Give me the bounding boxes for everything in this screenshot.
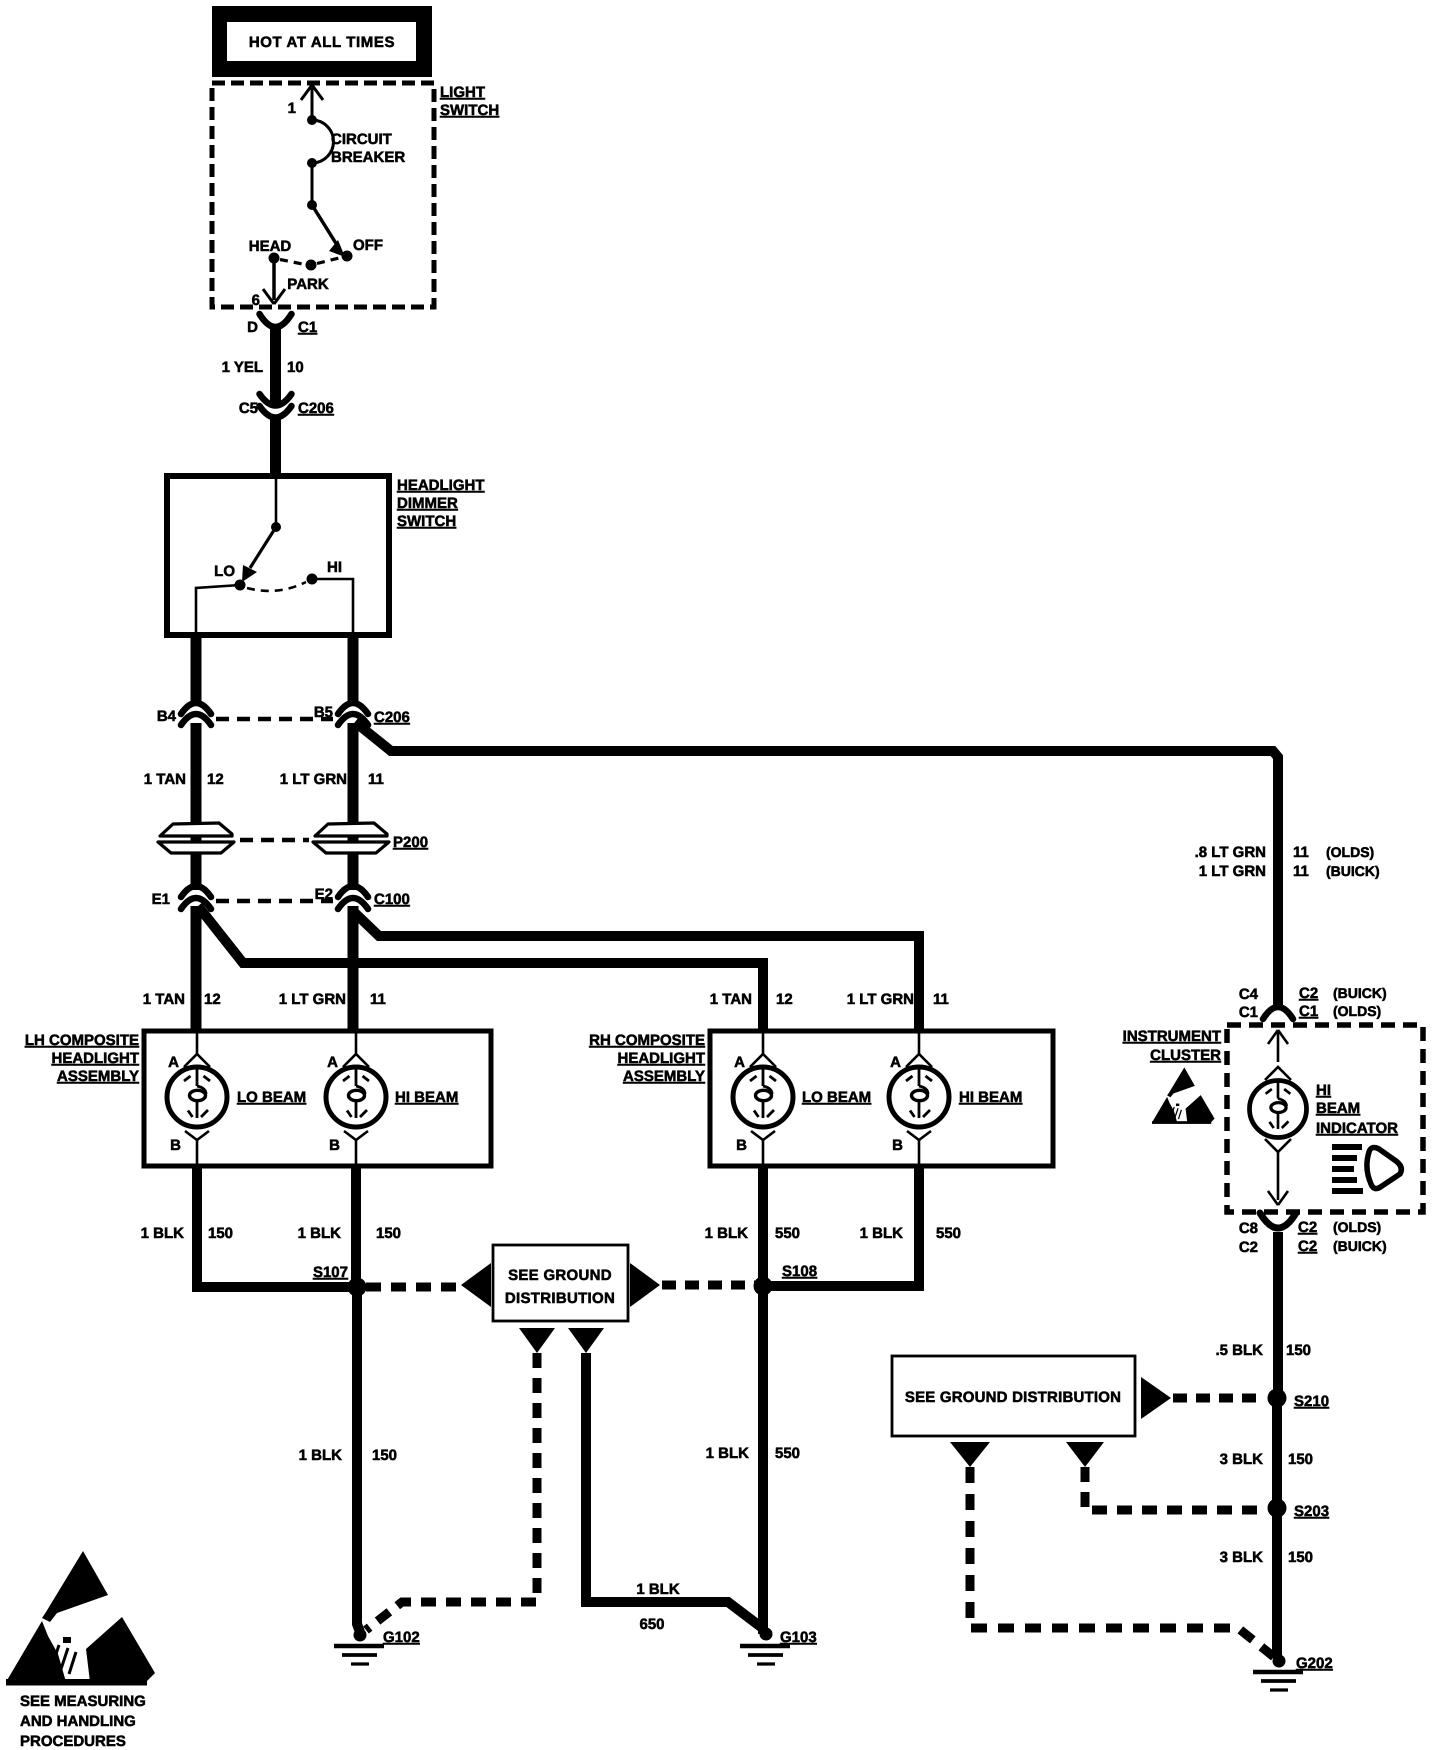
- svg-text:OFF: OFF: [353, 237, 383, 254]
- wire 3 BLK 150 (S210-S203): [1220, 1398, 1313, 1508]
- svg-text:SWITCH: SWITCH: [440, 102, 499, 119]
- svg-text:1 BLK: 1 BLK: [860, 1225, 904, 1242]
- HOT AT ALL TIMES power box: [212, 6, 432, 77]
- svg-text:E1: E1: [152, 891, 170, 908]
- svg-text:HI BEAM: HI BEAM: [395, 1089, 458, 1106]
- connector C206 pin B4: [157, 703, 211, 725]
- splice S107 dot: [348, 1278, 367, 1297]
- ESD warning symbol bottom left: [6, 1551, 155, 1686]
- svg-text:A: A: [327, 1054, 338, 1071]
- grommet P200 right: [313, 823, 428, 853]
- connector C8/C2 at cluster bottom: [1239, 1213, 1387, 1256]
- svg-text:150: 150: [1286, 1342, 1311, 1359]
- svg-text:.5 BLK: .5 BLK: [1215, 1342, 1263, 1359]
- svg-text:150: 150: [208, 1225, 233, 1242]
- svg-text:HEADLIGHT: HEADLIGHT: [52, 1050, 140, 1067]
- svg-text:SEE MEASURING: SEE MEASURING: [20, 1693, 146, 1710]
- pin 1 arrow up: [288, 85, 323, 120]
- pin 6 arrow down: [252, 263, 285, 309]
- svg-text:C206: C206: [298, 400, 334, 417]
- svg-text:150: 150: [376, 1225, 401, 1242]
- connector C206 pin B5: [314, 703, 410, 726]
- svg-text:A: A: [734, 1054, 745, 1071]
- LH lo beam lamp: [167, 1033, 306, 1164]
- wire 1 YEL 10: [222, 328, 304, 404]
- svg-text:1 BLK: 1 BLK: [299, 1447, 343, 1464]
- svg-text:INSTRUMENT: INSTRUMENT: [1123, 1028, 1221, 1045]
- dashed line B4-B5: [216, 717, 333, 721]
- svg-text:LIGHT: LIGHT: [440, 84, 485, 101]
- svg-text:C1: C1: [1239, 1004, 1258, 1021]
- svg-text:1 BLK: 1 BLK: [636, 1581, 680, 1598]
- ground G202: [1253, 1655, 1333, 1691]
- svg-text:CIRCUIT: CIRCUIT: [331, 131, 392, 148]
- svg-text:650: 650: [639, 1616, 664, 1633]
- svg-text:1 BLK: 1 BLK: [705, 1225, 749, 1242]
- svg-text:ASSEMBLY: ASSEMBLY: [623, 1068, 705, 1085]
- arrow down-left under box: [519, 1328, 555, 1353]
- svg-text:(BUICK): (BUICK): [1333, 1238, 1387, 1254]
- ESD symbol small: [1152, 1067, 1215, 1123]
- headlight beam icon: [1332, 1144, 1401, 1194]
- svg-text:B: B: [170, 1137, 181, 1154]
- svg-text:HEADLIGHT: HEADLIGHT: [618, 1050, 706, 1067]
- svg-text:.8 LT GRN: .8 LT GRN: [1195, 844, 1266, 861]
- ground G103: [740, 1628, 817, 1665]
- instrument cluster label: [1123, 1028, 1221, 1064]
- ESD note text: [20, 1693, 146, 1750]
- RH assembly label: [589, 1032, 705, 1085]
- connector C100 pin E2: [315, 886, 410, 909]
- arrow right of box: [1141, 1377, 1171, 1419]
- see ground distribution box (left): [493, 1245, 628, 1321]
- OFF contact: [342, 237, 384, 262]
- headlight dimmer switch label: [397, 477, 485, 530]
- splice S108: [782, 1263, 817, 1280]
- svg-text:3 BLK: 3 BLK: [1220, 1549, 1264, 1566]
- svg-text:1 LT GRN: 1 LT GRN: [279, 991, 346, 1008]
- grommet P200 left: [158, 823, 234, 853]
- svg-text:C1: C1: [1299, 1003, 1318, 1020]
- wire 1 TAN 12 (left, upper): [144, 723, 224, 890]
- dimmer switch internals: [196, 479, 353, 633]
- PARK contact: [287, 260, 329, 294]
- svg-text:10: 10: [287, 359, 304, 376]
- svg-text:1 LT GRN: 1 LT GRN: [847, 991, 914, 1008]
- wire branch B5 to instrument cluster: [355, 722, 1278, 1006]
- svg-text:150: 150: [372, 1447, 397, 1464]
- svg-text:G102: G102: [383, 1629, 420, 1646]
- switch blade to OFF: [307, 200, 345, 257]
- wire RH lo beam ground 1 BLK 550: [705, 1164, 800, 1634]
- wire RH hi beam ground 1 BLK 550: [763, 1164, 961, 1286]
- RH composite headlight assembly box: [710, 1031, 1053, 1166]
- LH composite headlight assembly box: [144, 1031, 491, 1166]
- connector C1 pin D: [247, 314, 317, 336]
- wire LH hi beam ground 1 BLK 150: [298, 1164, 401, 1287]
- wire labels row 2 left: [143, 991, 386, 1008]
- svg-text:PROCEDURES: PROCEDURES: [20, 1733, 126, 1750]
- svg-text:P200: P200: [393, 834, 428, 851]
- svg-text:150: 150: [1288, 1549, 1313, 1566]
- svg-text:HI: HI: [1316, 1082, 1331, 1099]
- svg-text:A: A: [890, 1054, 901, 1071]
- connector C100 pin E1: [152, 886, 211, 909]
- svg-text:1 BLK: 1 BLK: [141, 1225, 185, 1242]
- wire 1 LT GRN 11 (B5 down, upper): [280, 723, 384, 890]
- splice S210 dot: [1268, 1389, 1287, 1408]
- svg-text:550: 550: [775, 1225, 800, 1242]
- svg-text:1 BLK: 1 BLK: [706, 1445, 750, 1462]
- wire E1 down to LH lo beam: [191, 906, 202, 1033]
- svg-text:(BUICK): (BUICK): [1326, 863, 1380, 879]
- svg-text:HI: HI: [327, 559, 342, 576]
- LH assembly label: [25, 1032, 139, 1085]
- instrument cluster dashed box: [1227, 1025, 1423, 1212]
- circuit breaker: [307, 115, 405, 168]
- svg-text:12: 12: [776, 991, 793, 1008]
- svg-text:C8: C8: [1239, 1220, 1258, 1237]
- svg-text:C2: C2: [1239, 1239, 1258, 1256]
- wire .5 BLK 150: [1215, 1232, 1311, 1398]
- svg-text:C1: C1: [298, 319, 317, 336]
- svg-text:1 BLK: 1 BLK: [298, 1225, 342, 1242]
- svg-text:3 BLK: 3 BLK: [1220, 1451, 1264, 1468]
- svg-text:SWITCH: SWITCH: [397, 513, 456, 530]
- dashed line P200: [240, 838, 309, 842]
- ground G102: [334, 1629, 420, 1665]
- svg-text:150: 150: [1288, 1451, 1313, 1468]
- arrow down-right under box: [568, 1328, 604, 1353]
- svg-text:1 TAN: 1 TAN: [143, 991, 185, 1008]
- svg-text:C100: C100: [374, 891, 410, 908]
- arrows under box: [950, 1442, 990, 1467]
- svg-text:C2: C2: [1298, 1238, 1317, 1255]
- hi beam indicator lamp: [1250, 1030, 1399, 1205]
- svg-text:11: 11: [368, 771, 384, 788]
- wire: [311, 163, 314, 205]
- svg-text:D: D: [247, 319, 258, 336]
- svg-text:CLUSTER: CLUSTER: [1150, 1047, 1221, 1064]
- svg-text:C2: C2: [1299, 985, 1318, 1002]
- wire B4 out of dimmer: [191, 632, 202, 702]
- RH lo beam lamp: [733, 1033, 871, 1164]
- svg-text:HEAD: HEAD: [249, 238, 292, 255]
- light switch dashed box: [212, 83, 434, 307]
- svg-text:RH COMPOSITE: RH COMPOSITE: [589, 1032, 705, 1049]
- svg-text:1 TAN: 1 TAN: [144, 771, 186, 788]
- svg-text:SEE GROUND: SEE GROUND: [508, 1267, 612, 1284]
- svg-text:(OLDS): (OLDS): [1326, 844, 1374, 860]
- wire B5 out of dimmer: [348, 632, 359, 702]
- splice S107: [313, 1264, 348, 1281]
- connector C4/C1 at cluster top: [1239, 985, 1387, 1021]
- svg-text:G103: G103: [780, 1629, 817, 1646]
- wire E2 down to LH hi beam: [348, 906, 359, 1033]
- wire labels row 2 right: [710, 991, 949, 1008]
- svg-text:C2: C2: [1298, 1219, 1317, 1236]
- connector C206 pin C5: [239, 394, 334, 418]
- svg-text:B: B: [329, 1137, 340, 1154]
- svg-text:11: 11: [1293, 844, 1309, 861]
- splice S210: [1294, 1393, 1329, 1410]
- dashed ground wire to G202: [970, 1467, 1274, 1657]
- splice S108 dot: [754, 1277, 773, 1296]
- svg-text:LO BEAM: LO BEAM: [237, 1089, 306, 1106]
- light switch label: [440, 84, 499, 119]
- wire below S107 1 BLK 150: [299, 1287, 397, 1632]
- svg-text:PARK: PARK: [287, 276, 329, 293]
- LH hi beam lamp: [326, 1033, 458, 1164]
- headlight dimmer switch box: [167, 476, 389, 635]
- dashed blade positions: [280, 258, 341, 265]
- svg-text:12: 12: [207, 771, 224, 788]
- HEAD contact: [249, 238, 292, 264]
- svg-text:550: 550: [775, 1445, 800, 1462]
- svg-text:(OLDS): (OLDS): [1333, 1003, 1381, 1019]
- dashed wire to S108: [662, 1281, 755, 1290]
- wire labels .8 LT GRN 11 (OLDS) / 1 LT GRN 11 (BUICK): [1195, 844, 1380, 880]
- svg-text:LO BEAM: LO BEAM: [802, 1089, 871, 1106]
- svg-text:S107: S107: [313, 1264, 348, 1281]
- svg-text:HEADLIGHT: HEADLIGHT: [397, 477, 485, 494]
- dashed wire from under-box arrow to S203: [1085, 1467, 1264, 1510]
- svg-text:6: 6: [252, 292, 260, 309]
- svg-text:B: B: [892, 1137, 903, 1154]
- svg-text:C4: C4: [1239, 986, 1259, 1003]
- svg-text:C5: C5: [239, 400, 258, 417]
- arrow left: [461, 1263, 491, 1307]
- svg-text:(BUICK): (BUICK): [1333, 985, 1387, 1001]
- svg-text:BREAKER: BREAKER: [331, 149, 405, 166]
- dashed wire S107 to ground distribution: [366, 1283, 458, 1292]
- svg-text:HOT AT ALL TIMES: HOT AT ALL TIMES: [249, 34, 395, 51]
- svg-text:C206: C206: [374, 709, 410, 726]
- svg-text:1 YEL: 1 YEL: [222, 359, 263, 376]
- svg-text:11: 11: [933, 991, 949, 1008]
- solid ground wire from distribution box to G103 1 BLK 650: [586, 1353, 765, 1633]
- wire below S108 1 BLK 550: [706, 1445, 800, 1462]
- svg-text:1 LT GRN: 1 LT GRN: [280, 771, 347, 788]
- svg-text:11: 11: [1293, 863, 1309, 880]
- svg-text:B: B: [736, 1137, 747, 1154]
- wire E1 branch to RH lo beam: [198, 906, 763, 1033]
- splice S203 dot: [1268, 1499, 1287, 1518]
- svg-text:ASSEMBLY: ASSEMBLY: [57, 1068, 139, 1085]
- svg-text:LO: LO: [214, 563, 235, 580]
- svg-text:1 LT GRN: 1 LT GRN: [1199, 863, 1266, 880]
- svg-text:12: 12: [204, 991, 221, 1008]
- dashed wire to S210: [1173, 1394, 1264, 1403]
- svg-text:BEAM: BEAM: [1316, 1100, 1360, 1117]
- svg-text:INDICATOR: INDICATOR: [1316, 1120, 1398, 1137]
- svg-text:S203: S203: [1294, 1503, 1329, 1520]
- svg-text:S210: S210: [1294, 1393, 1329, 1410]
- svg-text:DIMMER: DIMMER: [397, 495, 458, 512]
- svg-text:LH COMPOSITE: LH COMPOSITE: [25, 1032, 139, 1049]
- svg-text:1: 1: [288, 100, 296, 117]
- wire 3 BLK 150 (S203-G202): [1220, 1508, 1313, 1658]
- dashed ground wire from distribution box to G102: [366, 1353, 537, 1630]
- dashed line E1-E2: [216, 899, 333, 903]
- svg-text:1 TAN: 1 TAN: [710, 991, 752, 1008]
- svg-text:AND HANDLING: AND HANDLING: [20, 1713, 136, 1730]
- svg-text:G202: G202: [1296, 1655, 1333, 1672]
- svg-text:B4: B4: [157, 708, 177, 725]
- see ground distribution box (right): [892, 1356, 1135, 1436]
- wire LH lo beam ground 1 BLK 150: [141, 1164, 352, 1287]
- svg-text:(OLDS): (OLDS): [1333, 1219, 1381, 1235]
- RH hi beam lamp: [889, 1033, 1022, 1164]
- svg-text:DISTRIBUTION: DISTRIBUTION: [505, 1290, 615, 1307]
- arrow right: [630, 1263, 660, 1307]
- wire to dimmer switch: [270, 415, 281, 479]
- svg-text:SEE GROUND DISTRIBUTION: SEE GROUND DISTRIBUTION: [905, 1389, 1121, 1406]
- wire E2 branch to RH hi beam: [355, 913, 919, 1033]
- svg-text:S108: S108: [782, 1263, 817, 1280]
- svg-text:HI BEAM: HI BEAM: [959, 1089, 1022, 1106]
- svg-text:550: 550: [936, 1225, 961, 1242]
- svg-text:11: 11: [370, 991, 386, 1008]
- splice S203: [1294, 1503, 1329, 1520]
- svg-text:A: A: [168, 1054, 179, 1071]
